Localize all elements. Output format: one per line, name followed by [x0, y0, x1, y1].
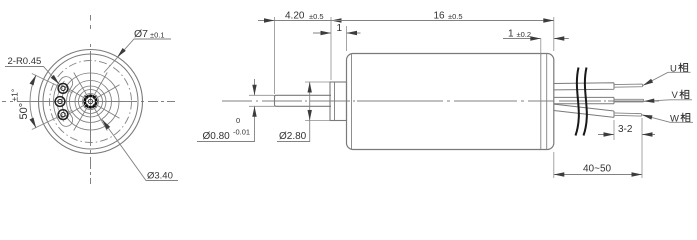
- shaft hub (knurled dark ring): [85, 96, 97, 108]
- wire V insulation: [554, 97, 614, 103]
- stator circle r28.5: [62, 73, 119, 130]
- svg-text:1: 1: [337, 23, 343, 34]
- wire U insulation: [554, 83, 614, 90]
- svg-text:Ø0.80: Ø0.80: [203, 131, 231, 142]
- svg-text:±1°: ±1°: [10, 89, 20, 102]
- circle r15.5: [75, 86, 106, 117]
- svg-text:0: 0: [236, 116, 240, 125]
- dim 1 ±0.2 (cap): [540, 39, 542, 57]
- motor body: [347, 54, 554, 150]
- dim 1 (boss): [346, 26, 348, 51]
- dim 3-2: [614, 118, 642, 171]
- terminal bolt-circle arc (dash-dot): [57, 81, 64, 122]
- 50 deg dimension arc with arrows: [30, 75, 36, 128]
- dashed circle: [50, 61, 132, 143]
- svg-text:±0.5: ±0.5: [309, 12, 324, 21]
- wire U conductor: [614, 84, 643, 87]
- svg-text:Ø3.40: Ø3.40: [147, 171, 173, 182]
- svg-text:1: 1: [508, 29, 514, 40]
- svg-text:50°: 50°: [18, 103, 30, 120]
- dim Ø2.80: [305, 82, 330, 121]
- dim 40~50: [554, 152, 642, 178]
- circle r21: [70, 81, 112, 123]
- wire V conductor: [614, 99, 644, 102]
- body left inner line: [351, 54, 353, 150]
- svg-text:Ø2.80: Ø2.80: [279, 131, 307, 142]
- inner housing circle: [43, 54, 138, 149]
- wire W conductor: [614, 113, 642, 116]
- svg-text:-0.01: -0.01: [233, 128, 250, 137]
- svg-text:4.20: 4.20: [285, 11, 305, 22]
- terminal pad middle: [55, 97, 65, 107]
- dim 16 ±0.5: [553, 17, 555, 51]
- svg-text:±0.5: ±0.5: [448, 12, 463, 21]
- wire W insulation: [554, 104, 614, 117]
- svg-text:2-R0.45: 2-R0.45: [8, 56, 42, 67]
- terminal polar centerline bottom: [56, 110, 73, 118]
- svg-text:16: 16: [434, 11, 446, 22]
- svg-text:±0.1: ±0.1: [150, 31, 165, 40]
- outer circle (body Ø7): [39, 50, 143, 154]
- svg-text:3-2: 3-2: [618, 124, 633, 135]
- svg-text:Ø7: Ø7: [134, 28, 148, 40]
- terminal pad top: [58, 84, 68, 94]
- svg-text:40~50: 40~50: [583, 164, 612, 175]
- svg-text:±0.2: ±0.2: [517, 30, 532, 39]
- body right cap lines: [540, 54, 542, 150]
- break mark 2: [584, 68, 587, 136]
- dim 4.20 ±0.5: [274, 17, 276, 94]
- horizontal centerline: [2, 101, 175, 103]
- circle r8: [83, 94, 99, 110]
- 50 deg extension lines: [32, 74, 58, 87]
- side view centerline: [222, 100, 659, 102]
- boss Ø2.80: [330, 82, 347, 121]
- terminal polar centerline top: [56, 85, 73, 93]
- break mark 1: [576, 68, 579, 136]
- vertical centerline: [90, 15, 92, 184]
- circle r12: [79, 90, 103, 114]
- spokes (12 at 30deg): [57, 68, 124, 135]
- shaft: [275, 95, 332, 106]
- terminal block outline (curved strip): [53, 77, 72, 127]
- dim Ø0.80 0/-0.01: [249, 95, 275, 106]
- terminal pad bottom: [58, 110, 68, 120]
